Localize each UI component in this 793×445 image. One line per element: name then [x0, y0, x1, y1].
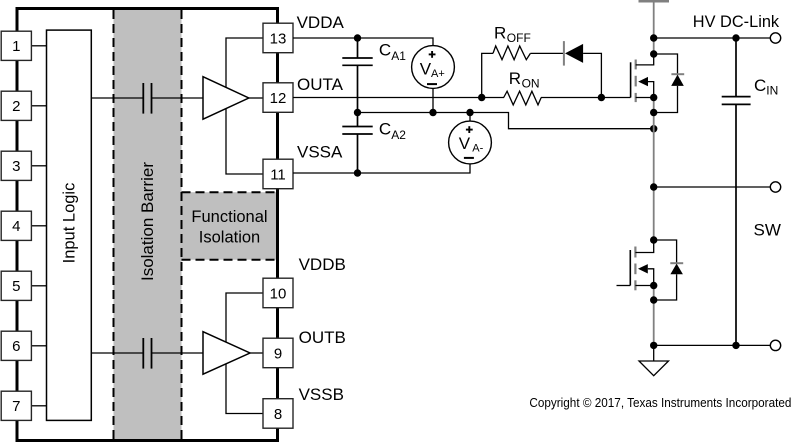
body diode Q1 — [654, 54, 685, 113]
IC outline U1 — [17, 9, 278, 441]
wire driver B output to pin9 — [250, 352, 263, 354]
functional isolation top dashed edge — [182, 191, 277, 193]
diode D1 anti-parallel with ROFF — [564, 41, 583, 66]
wire diode to RON right junction — [583, 53, 601, 97]
transistor Q1 high-side MOSFET — [631, 54, 654, 102]
wire pin3 to input logic — [31, 165, 46, 167]
node mid rail at CA branch — [354, 109, 361, 116]
functional isolation shaded box — [182, 192, 277, 260]
svg-text:OUTB: OUTB — [299, 328, 346, 347]
node VDDA junction at CA1 — [354, 34, 361, 41]
svg-text:A-: A- — [472, 143, 483, 155]
pin 13 — [263, 23, 293, 53]
wire barrier cap to driver B — [152, 352, 204, 354]
label CA1 — [379, 41, 406, 64]
wire ROFF branch left riser — [482, 53, 493, 97]
svg-text:VDDB: VDDB — [299, 255, 346, 274]
svg-text:SW: SW — [754, 221, 781, 240]
pin 1 — [1, 31, 31, 60]
isolation capacitor channel A — [143, 83, 151, 114]
node SW rail junction — [650, 183, 657, 190]
HV DC-link rail gray segment top — [653, 1, 655, 54]
svg-text:OUTA: OUTA — [297, 75, 344, 94]
node ROFF branch left junction — [478, 94, 485, 101]
wire barrier cap to driver A — [152, 97, 204, 99]
wire pin1 to input logic — [31, 45, 46, 47]
wire pin5 to input logic — [31, 285, 46, 287]
wire pin4 to input logic — [31, 225, 46, 227]
driver buffer A — [203, 77, 249, 120]
pin 3 — [1, 151, 31, 180]
pin 4 — [1, 211, 31, 240]
pin 7 — [1, 391, 31, 420]
svg-text:11: 11 — [270, 166, 286, 183]
svg-text:C: C — [754, 76, 766, 95]
wire VA+ to mid node — [432, 88, 434, 112]
svg-text:9: 9 — [274, 345, 282, 362]
node mid rail at SW rail — [650, 125, 657, 132]
wire channel B input logic to barrier cap — [91, 352, 143, 354]
driver buffer B — [203, 332, 250, 375]
capacitor CA1 — [342, 38, 372, 113]
node CIN top junction — [732, 34, 739, 41]
svg-text:HV DC-Link: HV DC-Link — [693, 12, 780, 31]
wire mid rail CA junction to SW rail — [358, 113, 654, 129]
svg-text:V: V — [459, 134, 471, 153]
label ROFF — [494, 23, 531, 45]
node Q1 body diode anode on rail — [650, 109, 657, 116]
svg-text:C: C — [379, 120, 391, 139]
pin 12 — [263, 83, 293, 113]
isolation barrier right dashed edge — [181, 10, 183, 439]
svg-text:8: 8 — [274, 406, 282, 423]
transistor Q2 low-side MOSFET — [617, 240, 654, 290]
wire SW output — [654, 186, 776, 188]
node mid rail at VA- — [466, 109, 473, 116]
wire pin6 to input logic — [31, 345, 46, 347]
svg-text:12: 12 — [270, 90, 287, 107]
node Q2 drain on rail — [650, 236, 657, 243]
input logic block — [47, 30, 92, 420]
functional isolation bottom dashed edge — [182, 259, 277, 261]
node HV rail junction — [650, 34, 657, 41]
capacitor CIN — [722, 38, 751, 345]
wire channel A input logic to barrier cap — [91, 97, 143, 99]
svg-text:VSSA: VSSA — [297, 143, 343, 162]
ground — [639, 345, 669, 375]
svg-text:A1: A1 — [391, 49, 406, 63]
pin 8 — [263, 399, 293, 429]
label CIN — [754, 76, 778, 98]
pin 2 — [1, 91, 31, 120]
svg-text:Isolation: Isolation — [199, 229, 260, 247]
svg-text:OFF: OFF — [507, 31, 531, 45]
svg-text:5: 5 — [12, 278, 20, 295]
svg-text:Isolation Barrier: Isolation Barrier — [138, 162, 157, 281]
isolation barrier left dashed edge — [113, 10, 115, 439]
isolation capacitor channel B — [143, 338, 151, 369]
HV DC-link rail top bar — [639, 0, 670, 2]
voltage source VA- — [449, 121, 492, 164]
node Q2 source on rail — [650, 282, 657, 289]
node Q1 drain on rail — [650, 50, 657, 57]
svg-text:6: 6 — [12, 338, 20, 355]
wire pin7 to input logic — [31, 405, 46, 407]
node ground rail junction — [650, 342, 657, 349]
wire driver A output to pin12 — [249, 97, 263, 99]
wire driver A supply rails pin13 to pin11 — [226, 38, 263, 174]
terminal SW — [770, 182, 780, 192]
svg-text:VSSB: VSSB — [299, 385, 344, 404]
voltage source VA+ — [412, 46, 455, 89]
SW rail gray segment — [653, 98, 655, 241]
label CA2 — [379, 120, 406, 143]
pin 5 — [1, 271, 31, 300]
capacitor CA2 — [342, 113, 372, 174]
wire VSSA from pin11 to VA- — [293, 164, 470, 173]
svg-text:4: 4 — [12, 218, 20, 235]
node VSSA junction at CA2 — [354, 169, 361, 176]
svg-text:A+: A+ — [431, 68, 445, 80]
svg-text:1: 1 — [12, 38, 20, 55]
svg-text:3: 3 — [12, 158, 20, 175]
wire pin2 to input logic — [31, 105, 46, 107]
svg-text:A2: A2 — [391, 128, 406, 142]
GND rail gray segment — [653, 286, 655, 346]
svg-text:13: 13 — [270, 30, 287, 47]
wire VA- top to mid node — [469, 113, 471, 122]
resistor RON — [504, 91, 542, 105]
wire OUTA from pin12 to RON — [293, 97, 504, 99]
node CIN bottom junction — [732, 342, 739, 349]
label Functional Isolation — [191, 208, 267, 247]
svg-text:R: R — [509, 69, 521, 88]
label RON — [509, 69, 540, 91]
svg-text:Copyright © 2017, Texas Instru: Copyright © 2017, Texas Instruments Inco… — [529, 395, 791, 410]
svg-text:VDDA: VDDA — [297, 13, 345, 32]
pin 9 — [263, 338, 293, 368]
wire VDDA from pin13 to VA+ — [293, 38, 433, 46]
terminal HV DC-Link — [770, 33, 780, 43]
svg-text:10: 10 — [270, 285, 287, 302]
svg-text:ON: ON — [522, 77, 540, 91]
svg-text:2: 2 — [12, 98, 20, 115]
svg-text:R: R — [494, 23, 506, 42]
node RON right junction — [598, 94, 605, 101]
svg-text:IN: IN — [766, 83, 778, 97]
wire HV DC-Link — [654, 37, 776, 39]
pin 10 — [263, 278, 293, 308]
svg-text:Input Logic: Input Logic — [61, 183, 79, 264]
resistor ROFF — [493, 46, 530, 60]
node Q2 body diode anode on rail — [650, 296, 657, 303]
node mid rail at VA+ — [429, 109, 436, 116]
wire ROFF to diode — [530, 52, 564, 54]
svg-text:C: C — [379, 41, 391, 60]
body diode Q2 — [654, 240, 684, 300]
wire RON to gate — [541, 97, 631, 99]
terminal ground side — [770, 340, 780, 350]
svg-text:V: V — [420, 60, 432, 79]
node Q1 source on rail — [650, 94, 657, 101]
pin 11 — [263, 159, 293, 189]
isolation barrier shaded column — [114, 10, 182, 439]
svg-text:7: 7 — [12, 398, 20, 415]
pin 6 — [1, 331, 31, 360]
svg-text:Functional: Functional — [191, 208, 267, 226]
wire driver B supply rails pin10 to pin8 — [226, 293, 263, 414]
wire ground line — [654, 344, 776, 346]
